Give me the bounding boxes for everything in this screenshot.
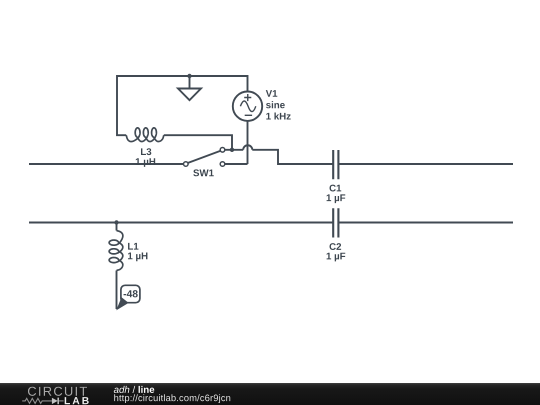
footer title line [139,386,155,393]
wire crossover hump over V1 wire [243,145,252,150]
footer bar [0,383,540,405]
label V1 type sine [266,101,285,108]
label C1 [330,185,342,192]
inductor L3 coil [126,128,164,142]
label C2 [330,243,342,250]
wire line 2 left segment [29,222,333,224]
label net flag -48 [124,290,138,297]
footer title adh [114,386,130,393]
wire C1 right segment [338,163,513,165]
label C1 value 1 uF [327,194,346,203]
footer title slash [132,386,135,393]
footer url [114,394,230,403]
junction dot at L1 node [114,220,118,224]
wire L3 right lead to switch node [164,135,232,150]
capacitor C2 plates [333,208,338,237]
wire hump to jog corner down to main line toward C1 [252,150,333,164]
net flag -48 pointer tail [116,297,128,310]
logo text LAB [65,397,89,404]
wire ground stub [189,76,191,89]
ground symbol [178,89,201,101]
junction dot at switch/L3 node [230,148,234,152]
junction dot at ground node [187,74,191,78]
label L1 [128,243,138,250]
wire main line left segment [29,163,183,165]
logo diode symbol [52,398,58,404]
wire top loop left/top/right [117,76,248,135]
voltage source V1 circle [233,92,262,121]
wire switch top terminal to node and hump [225,149,243,151]
V1 sine wave [240,101,255,112]
label V1 [266,90,278,97]
wire L1 top lead [116,223,118,231]
inductor L1 coil [109,231,123,271]
wire V1 bottom vertical [247,121,249,164]
switch SW1 top right terminal [220,148,225,153]
switch SW1 bottom right terminal [220,162,225,167]
label SW1 [193,169,213,176]
switch SW1 left terminal [184,162,189,167]
switch SW1 blade [188,151,220,163]
V1 minus sign [245,114,252,116]
label L3 [141,148,151,155]
label L1 value 1 uH [128,253,147,262]
wire L1 bottom lead [116,271,118,310]
logo text CIRCUIT [28,387,87,396]
wire C2 right segment [338,222,513,224]
capacitor C1 plates [333,150,338,179]
logo resistor zigzag and wire [22,398,52,403]
wire switch bottom terminal to V1 bottom [225,163,248,165]
logo wire to LAB [59,400,64,402]
net flag -48 box [121,285,140,302]
V1 plus sign [244,94,251,101]
label C2 value 1 uF [327,253,346,262]
label L3 value 1 uH [136,158,155,167]
label V1 value 1 kHz [266,112,290,119]
